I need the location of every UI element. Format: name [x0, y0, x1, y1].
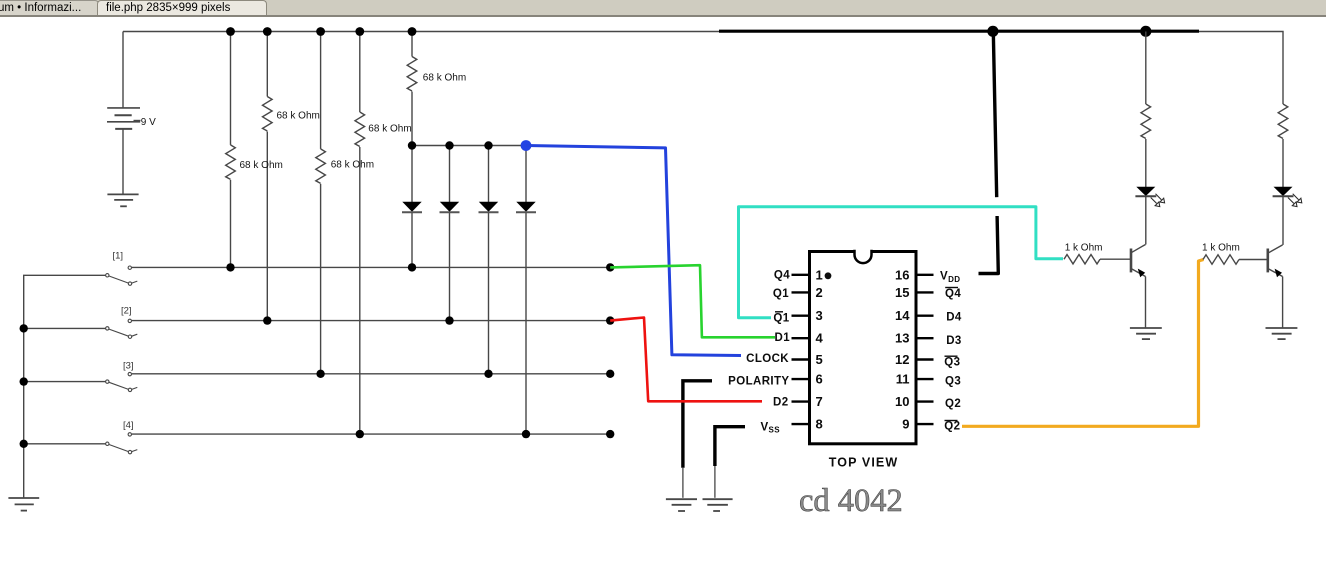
- svg-text:Q1: Q1: [773, 288, 789, 300]
- svg-text:VDD: VDD: [940, 271, 960, 285]
- svg-text:Q3: Q3: [944, 357, 960, 369]
- svg-text:68 k Ohm: 68 k Ohm: [368, 124, 411, 135]
- svg-text:2: 2: [816, 285, 823, 300]
- svg-text:68 k Ohm: 68 k Ohm: [331, 159, 374, 170]
- svg-text:Q1: Q1: [773, 313, 789, 325]
- svg-text:3: 3: [816, 308, 823, 323]
- svg-text:5: 5: [816, 352, 823, 367]
- svg-text:14: 14: [895, 308, 910, 323]
- svg-text:8: 8: [816, 417, 823, 432]
- svg-text:Q2: Q2: [945, 398, 961, 410]
- svg-text:Q4: Q4: [945, 288, 961, 300]
- svg-text:D2: D2: [773, 396, 789, 408]
- svg-text:Q2: Q2: [944, 421, 960, 433]
- svg-text:cd 4042: cd 4042: [799, 483, 903, 519]
- svg-text:D3: D3: [946, 335, 962, 347]
- svg-text:9 V: 9 V: [141, 117, 156, 128]
- svg-text:[4]: [4]: [123, 420, 134, 431]
- svg-text:[3]: [3]: [123, 360, 134, 371]
- svg-text:POLARITY: POLARITY: [728, 376, 789, 388]
- svg-text:1 k Ohm: 1 k Ohm: [1202, 243, 1240, 254]
- svg-text:68 k Ohm: 68 k Ohm: [240, 160, 283, 171]
- svg-text:CLOCK: CLOCK: [746, 353, 789, 365]
- svg-text:16: 16: [895, 267, 909, 282]
- svg-text:D1: D1: [774, 332, 790, 344]
- svg-text:13: 13: [895, 331, 909, 346]
- svg-text:1: 1: [816, 267, 823, 282]
- svg-text:10: 10: [895, 394, 909, 409]
- svg-text:1 k Ohm: 1 k Ohm: [1065, 243, 1103, 254]
- svg-text:[1]: [1]: [113, 250, 124, 261]
- svg-text:4: 4: [816, 331, 824, 346]
- svg-text:15: 15: [895, 285, 909, 300]
- svg-text:68 k Ohm: 68 k Ohm: [423, 73, 466, 84]
- svg-text:VSS: VSS: [760, 422, 780, 435]
- svg-text:TOP VIEW: TOP VIEW: [829, 456, 898, 470]
- svg-text:9: 9: [902, 417, 909, 432]
- svg-text:68 k Ohm: 68 k Ohm: [277, 111, 320, 122]
- svg-text:11: 11: [896, 372, 910, 387]
- svg-text:7: 7: [816, 394, 823, 409]
- svg-text:Q3: Q3: [945, 376, 961, 388]
- svg-text:[2]: [2]: [121, 306, 132, 317]
- svg-text:6: 6: [816, 372, 823, 387]
- svg-text:D4: D4: [946, 312, 962, 324]
- svg-text:12: 12: [895, 352, 909, 367]
- svg-text:Q4: Q4: [774, 270, 790, 282]
